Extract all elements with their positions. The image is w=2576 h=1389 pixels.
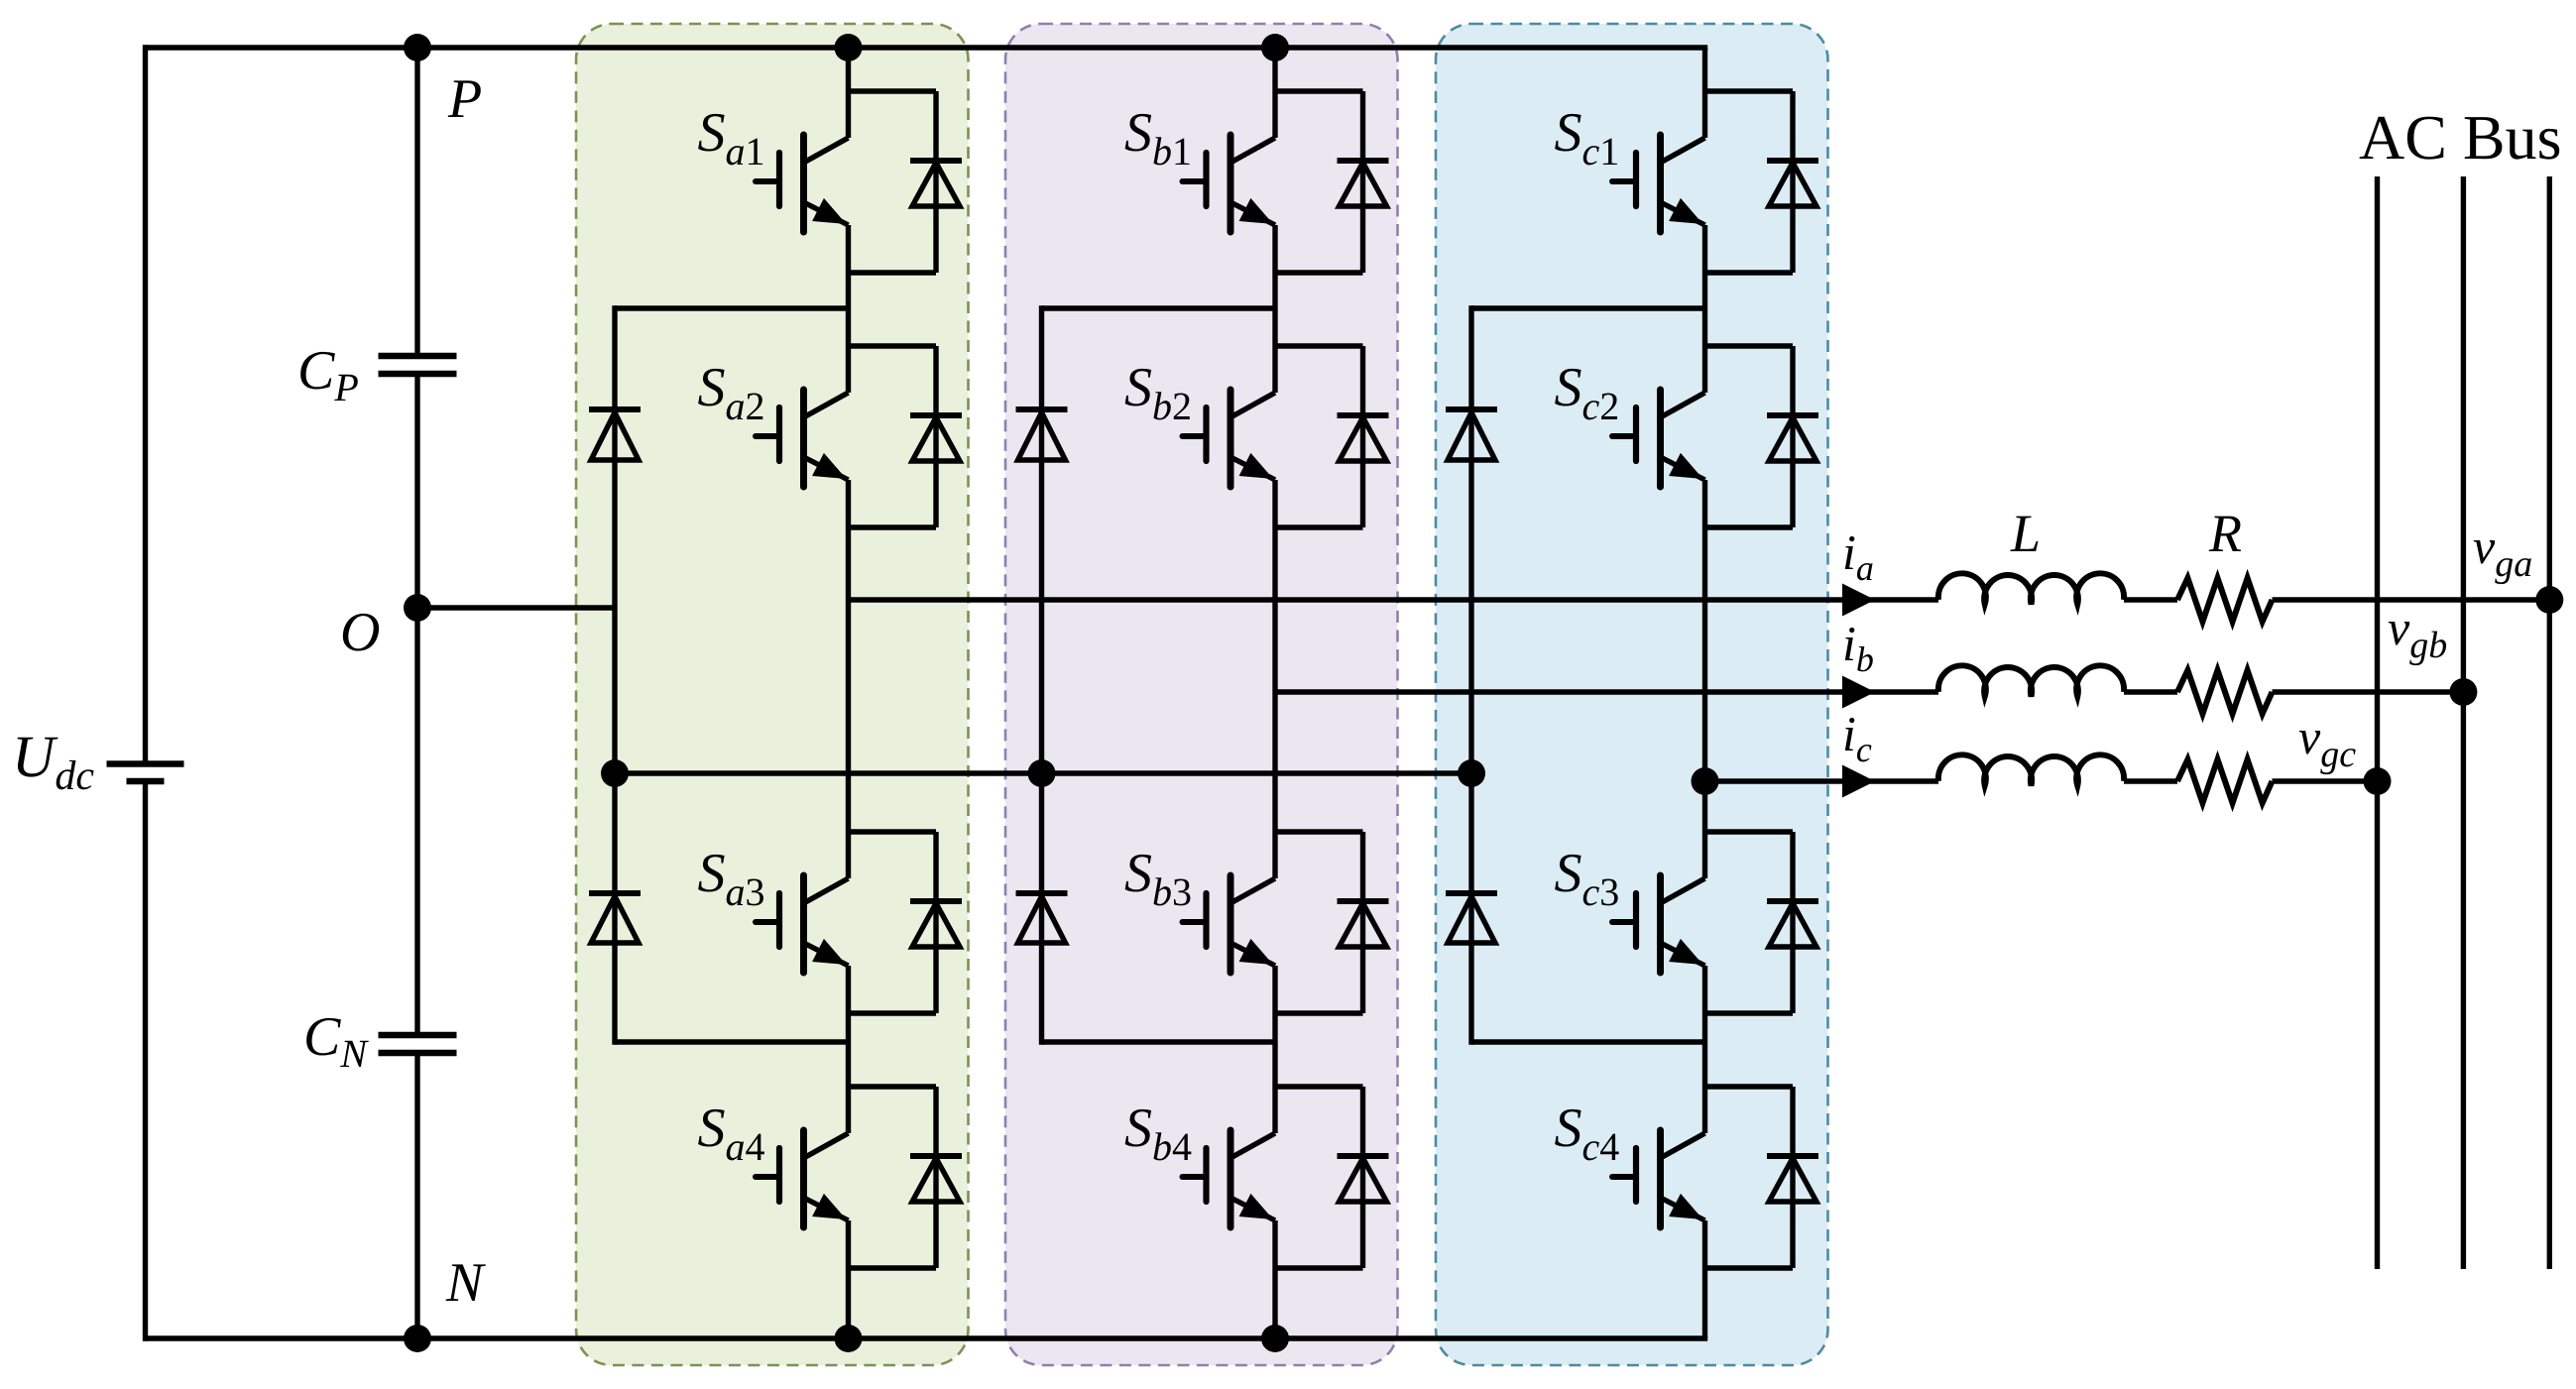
svg-text:vga: vga (2473, 519, 2532, 585)
wire phase-a leg trunk (846, 48, 851, 1338)
node phase-c output tap (1692, 767, 1719, 795)
label Sc1 (1555, 102, 1620, 174)
wire AC bus line 1 (2375, 176, 2380, 1269)
label ic (1842, 706, 1872, 769)
transistor Sb2 (IGBT) (1183, 390, 1276, 487)
inductor L (phase a) (1938, 573, 2124, 604)
clamp diode Dc6 (lower) (1446, 893, 1497, 943)
diode Da4 (antiparallel with Sa4) (849, 1087, 963, 1268)
wire phase-c output line (1705, 778, 2378, 783)
node P (404, 34, 431, 61)
diode Da2 (antiparallel with Sa2) (849, 346, 963, 527)
transistor Sa3 (IGBT) (756, 875, 849, 973)
node phase-b clamp midpoint on neutral bus (1028, 759, 1056, 787)
label Sa1 (698, 102, 765, 174)
node O (404, 594, 431, 622)
wire phase-c clamp bottom branch (1471, 1039, 1705, 1044)
wire phase-c clamp top branch (1471, 305, 1705, 310)
transistor Sb3 (IGBT) (1183, 875, 1276, 973)
label CP (297, 340, 359, 409)
label N (445, 1252, 486, 1314)
wire left source branch lower (143, 781, 148, 1341)
clamp diode Da5 (upper) (589, 409, 641, 460)
label CN (303, 1006, 369, 1076)
transistor Sc3 (IGBT) (1612, 875, 1705, 973)
label Sb2 (1124, 357, 1192, 428)
wire phase-c leg trunk (1702, 48, 1707, 1338)
label Sa3 (698, 843, 765, 914)
label O (340, 602, 380, 663)
svg-text:R: R (2208, 504, 2242, 563)
label Sb4 (1124, 1098, 1192, 1169)
svg-text:ib: ib (1842, 616, 1874, 679)
transistor Sb4 (IGBT) (1183, 1130, 1276, 1227)
battery Udc positive plate (107, 760, 184, 767)
label AC Bus (2359, 102, 2562, 173)
wire O to phase-a clamp midpoint (417, 605, 615, 610)
node phase-a bottom (N rail) (835, 1325, 863, 1352)
label Udc (12, 724, 94, 799)
label Sb3 (1124, 843, 1192, 914)
label Sb1 (1124, 102, 1192, 174)
diode Dc2 (antiparallel with Sc2) (1705, 346, 1819, 527)
wire AC bus line 2 (2461, 176, 2466, 1269)
wire neutral bus linking clamp midpoints (615, 770, 1471, 775)
svg-text:N: N (445, 1252, 486, 1314)
label ib (1842, 616, 1874, 679)
svg-text:vgc: vgc (2298, 709, 2356, 775)
svg-text:O: O (340, 602, 380, 663)
clamp diode Db5 (upper) (1016, 409, 1068, 460)
label P (447, 68, 482, 130)
diode Da1 (antiparallel with Sa1) (849, 91, 963, 273)
node phase-a top (P rail) (835, 34, 863, 61)
label Sa2 (698, 357, 765, 428)
diode Db4 (antiparallel with Sb4) (1275, 1087, 1389, 1268)
diode Dc3 (antiparallel with Sc3) (1705, 832, 1819, 1013)
diode Db2 (antiparallel with Sb2) (1275, 346, 1389, 527)
wire phase-c clamp vertical (1468, 305, 1473, 1044)
transistor Sc2 (IGBT) (1612, 390, 1705, 487)
svg-text:L: L (2010, 504, 2041, 563)
wire P rail (top DC bus) (146, 45, 1708, 50)
svg-text:vgb: vgb (2388, 600, 2447, 666)
diode Db1 (antiparallel with Sb1) (1275, 91, 1389, 273)
diode Dc1 (antiparallel with Sc1) (1705, 91, 1819, 273)
arrow current ia (1842, 584, 1875, 617)
transistor Sa1 (IGBT) (756, 135, 849, 232)
resistor R (phase b) (2177, 670, 2273, 714)
clamp diode Da6 (lower) (589, 893, 641, 943)
svg-text:AC Bus: AC Bus (2359, 102, 2562, 173)
wire left source branch upper (143, 45, 148, 763)
label Sc3 (1555, 843, 1620, 914)
label ia (1842, 524, 1874, 588)
wire phase-a clamp top branch (615, 305, 849, 310)
diode Db3 (antiparallel with Sb3) (1275, 832, 1389, 1013)
label Sc2 (1555, 357, 1620, 428)
wire DC-link vertical CP-to-CN (414, 374, 419, 1035)
resistor R (phase a) (2177, 578, 2273, 622)
svg-text:CN: CN (303, 1006, 369, 1076)
label R (2208, 504, 2242, 563)
inductor L (phase c) (1938, 754, 2124, 785)
diode Dc4 (antiparallel with Sc4) (1705, 1087, 1819, 1268)
node N (404, 1325, 431, 1352)
wire phase-a clamp vertical (612, 305, 617, 1044)
capacitor CP (379, 356, 457, 374)
label L (2010, 504, 2041, 563)
wire DC-link vertical CN-to-N (414, 1053, 419, 1341)
label Sa4 (698, 1098, 765, 1169)
svg-text:ia: ia (1842, 524, 1874, 588)
svg-text:ic: ic (1842, 706, 1872, 769)
inductor L (phase b) (1938, 665, 2124, 696)
node phase-b top (P rail) (1261, 34, 1289, 61)
node phase-c clamp midpoint on neutral bus (1458, 759, 1485, 787)
arrow current ib (1842, 676, 1875, 709)
label vgc (2298, 709, 2356, 775)
battery Udc negative plate (127, 778, 165, 785)
clamp diode Dc5 (upper) (1446, 409, 1497, 460)
wire phase-b output line (1275, 689, 2463, 694)
transistor Sb1 (IGBT) (1183, 135, 1276, 232)
wire DC-link vertical P-to-CP (414, 45, 419, 356)
svg-text:CP: CP (297, 340, 359, 409)
wire AC bus line 3 (2547, 176, 2552, 1269)
clamp diode Db6 (lower) (1016, 893, 1068, 943)
transistor Sa2 (IGBT) (756, 390, 849, 487)
transistor Sc1 (IGBT) (1612, 135, 1705, 232)
phase-a leg highlight box (576, 24, 969, 1365)
svg-text:Udc: Udc (12, 724, 94, 799)
svg-text:P: P (447, 68, 482, 130)
label vga (2473, 519, 2532, 585)
resistor R (phase c) (2177, 759, 2273, 803)
label Sc4 (1555, 1098, 1620, 1169)
label vgb (2388, 600, 2447, 666)
wire phase-a output line (849, 597, 2550, 602)
node vgc (AC bus connection) (2364, 767, 2392, 795)
phase-c leg highlight box (1436, 24, 1828, 1365)
node vga (AC bus connection) (2535, 586, 2563, 614)
wire phase-b clamp vertical (1039, 305, 1044, 1044)
wire phase-a clamp bottom branch (615, 1039, 849, 1044)
node phase-b bottom (N rail) (1261, 1325, 1289, 1352)
capacitor CN (379, 1035, 457, 1053)
wire phase-b clamp bottom branch (1042, 1039, 1276, 1044)
wire phase-b clamp top branch (1042, 305, 1276, 310)
wire N rail (bottom DC bus) (146, 1335, 1708, 1340)
node vgb (AC bus connection) (2449, 678, 2477, 706)
arrow current ic (1842, 765, 1875, 798)
diode Da3 (antiparallel with Sa3) (849, 832, 963, 1013)
transistor Sa4 (IGBT) (756, 1130, 849, 1227)
node phase-a clamp midpoint on neutral bus (601, 759, 629, 787)
phase-b leg highlight box (1005, 24, 1398, 1365)
wire phase-b leg trunk (1272, 48, 1277, 1338)
transistor Sc4 (IGBT) (1612, 1130, 1705, 1227)
